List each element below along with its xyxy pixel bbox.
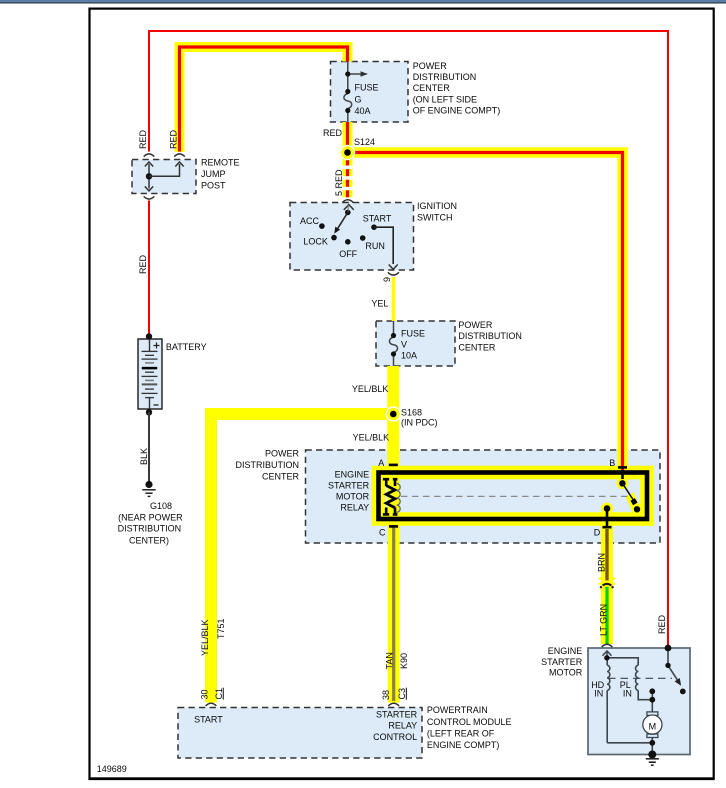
- power distribution center box (fuse G): [331, 62, 409, 123]
- fuse G arrow tap: [348, 73, 362, 75]
- wire YEL: ignition pin 9 to fuse V: [392, 277, 396, 321]
- svg-text:ENGINE COMPT): ENGINE COMPT): [427, 740, 500, 750]
- svg-text:G: G: [355, 95, 362, 105]
- svg-text:YEL/BLK: YEL/BLK: [353, 433, 390, 443]
- node S168 halo: [385, 406, 401, 422]
- bracket: PCM pin 38: [388, 703, 399, 706]
- relay coil through-wire highlight: [387, 470, 399, 522]
- battery plus stem: [149, 339, 151, 351]
- svg-text:9: 9: [382, 277, 392, 282]
- svg-text:MOTOR: MOTOR: [336, 492, 370, 502]
- jump post internal wires: [148, 164, 150, 189]
- powertrain control module box: [178, 708, 422, 759]
- svg-text:STARTER: STARTER: [376, 710, 418, 720]
- power distribution center box (relay): [306, 450, 661, 543]
- svg-text:30: 30: [200, 689, 210, 699]
- svg-text:YEL: YEL: [371, 299, 388, 309]
- ignition START wire to pin 9: [374, 227, 393, 264]
- wire BLK: battery to ground: [148, 412, 150, 481]
- motor feed contacts: [651, 691, 653, 712]
- bracket: starter motor LT GRN entry: [602, 644, 613, 647]
- svg-text:FUSE: FUSE: [401, 328, 425, 338]
- svg-text:G108: G108: [150, 501, 172, 511]
- svg-text:YEL/BLK: YEL/BLK: [352, 384, 389, 394]
- svg-text:A: A: [378, 458, 384, 468]
- wire 5 RED dashed core: [346, 159, 349, 200]
- bracket: jump post bottom: [144, 196, 155, 199]
- title bar strip: [0, 0, 726, 2]
- svg-text:IGNITION: IGNITION: [417, 201, 457, 211]
- connector C1 tick: [222, 688, 224, 700]
- wire highlight: S168 down to relay pin A: [387, 414, 399, 470]
- svg-text:OF ENGINE COMPT): OF ENGINE COMPT): [413, 106, 501, 116]
- wire BRN core: relay pin D to splice: [605, 529, 608, 581]
- bracket: jump post top right: [174, 154, 185, 157]
- power distribution center box (fuse V): [376, 321, 455, 366]
- svg-text:TAN: TAN: [384, 652, 394, 669]
- svg-text:STARTER: STARTER: [328, 481, 370, 491]
- fuse V element: [389, 337, 397, 353]
- wire highlight: S168 branch left and down to PCM pin 30: [211, 414, 399, 703]
- relay coil: [383, 478, 398, 516]
- svg-text:(IN PDC): (IN PDC): [401, 418, 438, 428]
- fuse G element: [344, 94, 352, 109]
- ignition switch box: [290, 203, 414, 271]
- svg-text:FUSE: FUSE: [355, 83, 379, 93]
- relay pin D contact: [604, 505, 611, 512]
- wire highlight: S124 to relay pin B: [348, 153, 623, 471]
- svg-text:DISTRIBUTION: DISTRIBUTION: [458, 331, 522, 341]
- fuse G internal wire: [347, 62, 349, 123]
- svg-text:B: B: [609, 458, 615, 468]
- splice diamond BRN/LT GRN: [598, 573, 617, 582]
- svg-text:S168: S168: [401, 408, 422, 418]
- svg-text:C3: C3: [397, 688, 407, 700]
- svg-text:RELAY: RELAY: [340, 503, 369, 513]
- ignition contact dots: [319, 223, 325, 229]
- svg-text:CENTER: CENTER: [458, 342, 496, 352]
- relay highlight outline: [379, 473, 648, 520]
- wire TAN core: relay pin C to PCM: [392, 528, 395, 702]
- wire highlight: fuse V to S168: [387, 366, 399, 414]
- svg-text:5 RED: 5 RED: [334, 169, 344, 196]
- svg-text:POWER: POWER: [265, 449, 300, 459]
- svg-text:38: 38: [381, 690, 391, 700]
- node S168: [386, 406, 402, 422]
- node: motor coil feed junctions: [604, 655, 609, 660]
- svg-text:POWERTRAIN: POWERTRAIN: [427, 705, 488, 715]
- PL coil: [607, 658, 638, 665]
- svg-text:START: START: [194, 714, 223, 724]
- wire highlight: relay pin C to PCM pin 38: [388, 522, 400, 703]
- svg-text:JUMP: JUMP: [201, 169, 226, 179]
- wire highlight: fuse G to S124: [343, 122, 353, 153]
- svg-text:LOCK: LOCK: [303, 237, 328, 247]
- wire RED core: S124 to relay pin B: [348, 153, 623, 471]
- svg-text:REMOTE: REMOTE: [201, 158, 240, 168]
- text layer: [97, 61, 667, 774]
- svg-text:CENTER: CENTER: [262, 472, 300, 482]
- svg-text:POST: POST: [201, 180, 226, 190]
- splice S gap marks: [603, 584, 612, 586]
- svg-text:RED: RED: [657, 614, 667, 634]
- ignition switch blade: [345, 210, 351, 216]
- svg-text:CONTROL MODULE: CONTROL MODULE: [427, 717, 512, 727]
- fuse V internal wire: [393, 321, 395, 366]
- svg-text:BRN: BRN: [597, 553, 607, 572]
- starter switch: [667, 648, 669, 665]
- svg-text:IN: IN: [623, 689, 632, 699]
- svg-text:V: V: [401, 340, 407, 350]
- motor M body: [647, 712, 658, 716]
- svg-text:START: START: [363, 214, 392, 224]
- svg-text:(LEFT REAR OF: (LEFT REAR OF: [427, 729, 495, 739]
- wire RED core: fuse G to S124: [346, 122, 349, 153]
- svg-text:SWITCH: SWITCH: [417, 213, 453, 223]
- svg-text:RED: RED: [169, 129, 179, 149]
- svg-text:RED: RED: [323, 128, 343, 138]
- svg-text:(ON LEFT SIDE: (ON LEFT SIDE: [413, 94, 477, 104]
- bracket: ignition pin 5: [342, 200, 353, 203]
- bracket: PCM pin 30: [206, 703, 217, 706]
- connector C3 tick: [405, 688, 407, 700]
- starter switch dots and arrow: [665, 645, 672, 652]
- battery box: [138, 339, 162, 409]
- relay linkage dashed: [401, 495, 628, 497]
- svg-text:BLK: BLK: [139, 448, 149, 465]
- relay body: [379, 473, 648, 520]
- svg-text:RUN: RUN: [365, 241, 385, 251]
- HD coil: [606, 658, 608, 665]
- svg-text:RED: RED: [138, 254, 148, 274]
- svg-text:YEL/BLK: YEL/BLK: [200, 619, 210, 656]
- node S124 halo: [340, 145, 356, 161]
- svg-text:D: D: [594, 528, 601, 538]
- engine starter motor box: [588, 648, 690, 755]
- ground G108: [145, 481, 152, 488]
- svg-text:MOTOR: MOTOR: [549, 668, 583, 678]
- relay pin D contact halo: [601, 503, 613, 515]
- bracket: ignition pin 9: [388, 272, 399, 275]
- svg-text:RED: RED: [138, 129, 148, 149]
- svg-text:STARTER: STARTER: [541, 657, 583, 667]
- svg-text:10A: 10A: [401, 351, 417, 361]
- wire highlight: relay pin D to starter motor: [601, 522, 613, 645]
- svg-text:T751: T751: [216, 618, 226, 639]
- svg-text:CONTROL: CONTROL: [373, 732, 417, 742]
- svg-text:149689: 149689: [97, 764, 127, 774]
- wire RED: battery to jump post to top rail to starter motor: [149, 31, 668, 648]
- svg-text:POWER: POWER: [413, 61, 448, 71]
- svg-text:LT GRN: LT GRN: [599, 604, 609, 636]
- svg-text:CENTER): CENTER): [129, 535, 169, 545]
- svg-text:S124: S124: [354, 137, 375, 147]
- svg-text:ENGINE: ENGINE: [548, 646, 583, 656]
- wire highlight: 5 RED dashed drop to ignition: [343, 159, 353, 200]
- svg-text:DISTRIBUTION: DISTRIBUTION: [118, 524, 182, 534]
- svg-text:C1: C1: [214, 688, 224, 700]
- relay pin B contact halo: [617, 478, 629, 490]
- wire RED core: jump post to fuse G: [180, 47, 348, 152]
- wire core layer: [149, 31, 668, 701]
- motor ground wire: [607, 743, 652, 755]
- battery top dot: [146, 333, 152, 339]
- motor ground: [648, 751, 656, 759]
- wire highlight: jump post to fuse G feed: [180, 47, 348, 152]
- node S124: [340, 145, 356, 161]
- wire LT GRN core: splice to starter motor: [605, 587, 608, 644]
- svg-text:C: C: [379, 528, 386, 538]
- svg-text:ACC: ACC: [300, 216, 320, 226]
- svg-text:ENGINE: ENGINE: [335, 470, 370, 480]
- ignition entry arrow: [344, 205, 354, 210]
- svg-text:K90: K90: [399, 653, 409, 669]
- boxes layer: [132, 62, 690, 759]
- svg-text:(NEAR POWER: (NEAR POWER: [118, 512, 183, 522]
- battery bottom dot: [146, 409, 152, 415]
- svg-text:CENTER: CENTER: [413, 83, 451, 93]
- battery plates: [142, 350, 158, 352]
- motor linkage dashed: [608, 677, 672, 679]
- remote jump post box: [132, 160, 196, 194]
- bracket: jump post top left: [144, 154, 155, 157]
- relay pin crossbars: [389, 464, 398, 467]
- svg-text:M: M: [649, 721, 657, 731]
- svg-text:40A: 40A: [355, 106, 371, 116]
- svg-text:RELAY: RELAY: [388, 721, 417, 731]
- svg-text:POWER: POWER: [458, 320, 493, 330]
- svg-text:IN: IN: [594, 689, 603, 699]
- component internals: [142, 62, 686, 766]
- yellow highlight layer: [180, 47, 648, 703]
- relay pin B contact: [621, 470, 624, 479]
- svg-text:OFF: OFF: [339, 249, 357, 259]
- svg-text:BATTERY: BATTERY: [166, 342, 207, 352]
- svg-text:DISTRIBUTION: DISTRIBUTION: [235, 460, 299, 470]
- starter motor entry arrow: [603, 651, 612, 656]
- svg-text:DISTRIBUTION: DISTRIBUTION: [413, 72, 477, 82]
